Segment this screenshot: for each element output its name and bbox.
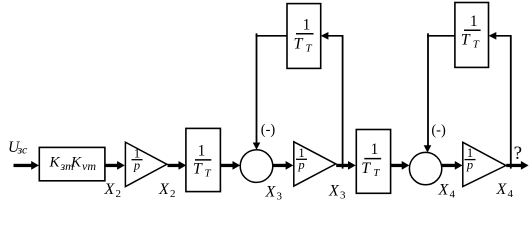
summing junction 1 xyxy=(240,150,273,183)
wire arrow block to summing junction 1 xyxy=(220,161,240,170)
svg-text:vm: vm xyxy=(82,159,96,173)
svg-text:K: K xyxy=(49,155,61,171)
integrator triangle 1/p (third) xyxy=(463,142,506,186)
svg-text:p: p xyxy=(133,158,140,172)
gain block K_зт K_vm xyxy=(39,147,105,180)
integrator triangle 1/p (second) xyxy=(294,142,336,186)
svg-text:(-): (-) xyxy=(261,122,276,138)
wire feedback 1 tap (up from X3 node, arrow into feedback block) xyxy=(321,32,344,169)
node label X4 (output) xyxy=(496,181,514,200)
svg-text:T: T xyxy=(306,42,313,54)
node label X3 (after sum 1) xyxy=(265,184,283,203)
svg-text:1: 1 xyxy=(198,143,206,160)
wire arrow K block to integrator U1 xyxy=(105,161,125,170)
wire arrow integrator to 1/T_T block xyxy=(168,161,187,170)
node label X3 (after integrator 2) xyxy=(328,183,346,202)
wire feedback 1 down arrow into sum 1 xyxy=(253,36,261,150)
node label X2 (before integrator) xyxy=(104,181,122,200)
svg-text:T: T xyxy=(205,168,212,180)
svg-text:T: T xyxy=(373,167,380,179)
wire arrow integrator 2 to second 1/T_T block xyxy=(336,161,356,170)
node label X2 (after integrator) xyxy=(158,181,176,200)
svg-text:1: 1 xyxy=(470,13,478,30)
svg-text:T: T xyxy=(294,36,304,53)
wire feedback 2 down arrow into sum 2 xyxy=(424,36,432,153)
wire arrow sum 2 to integrator 3 xyxy=(442,161,463,170)
svg-text:(-): (-) xyxy=(431,122,446,138)
svg-text:3: 3 xyxy=(277,191,283,203)
svg-text:3: 3 xyxy=(340,190,346,202)
svg-text:2: 2 xyxy=(116,188,122,200)
block 1/T_T (second, main row) xyxy=(356,130,390,194)
svg-text:K: K xyxy=(70,155,82,171)
svg-text:X: X xyxy=(496,181,508,198)
svg-text:?: ? xyxy=(514,143,522,164)
svg-text:T: T xyxy=(193,161,203,178)
svg-text:зс: зс xyxy=(17,143,29,157)
svg-text:X: X xyxy=(265,184,277,201)
svg-text:X: X xyxy=(158,181,170,198)
svg-text:X: X xyxy=(438,182,450,199)
svg-text:1: 1 xyxy=(303,17,311,34)
node label X4 (after sum 2) xyxy=(438,182,456,201)
svg-text:p: p xyxy=(466,158,473,172)
wire feedback 1 return (block output to down wire) xyxy=(256,33,287,36)
svg-text:4: 4 xyxy=(508,188,514,200)
wire feedback 2 tap (up from X4 output node, arrow into feedback block 2) xyxy=(489,32,512,169)
minus sign label (-) at sum 2 xyxy=(431,122,446,138)
svg-text:p: p xyxy=(297,158,304,172)
svg-text:1: 1 xyxy=(371,141,379,158)
svg-text:T: T xyxy=(473,39,480,51)
wire feedback 2 return (block output to down wire) xyxy=(427,33,455,36)
integrator triangle 1/p (first) xyxy=(125,142,166,186)
svg-text:T: T xyxy=(461,32,471,49)
feedback block 1/T_T (second) xyxy=(455,3,489,68)
node label ? (output) xyxy=(514,143,522,164)
svg-text:X: X xyxy=(104,181,116,198)
node Uzc input label xyxy=(8,139,28,157)
svg-text:X: X xyxy=(328,183,340,200)
svg-text:T: T xyxy=(361,160,371,177)
wire arrow block 2 to summing junction 2 xyxy=(391,161,410,170)
wire arrow sum 1 to integrator 2 xyxy=(273,161,293,170)
feedback block 1/T_T (first) xyxy=(287,4,321,69)
minus sign label (-) at sum 1 xyxy=(261,122,276,138)
block 1/T_T (first, main row) xyxy=(186,128,221,191)
summing junction 2 xyxy=(409,152,441,184)
wire output arrow xyxy=(506,161,528,170)
svg-text:2: 2 xyxy=(170,188,176,200)
svg-text:4: 4 xyxy=(450,189,456,201)
wire input arrow to K block xyxy=(14,161,39,170)
